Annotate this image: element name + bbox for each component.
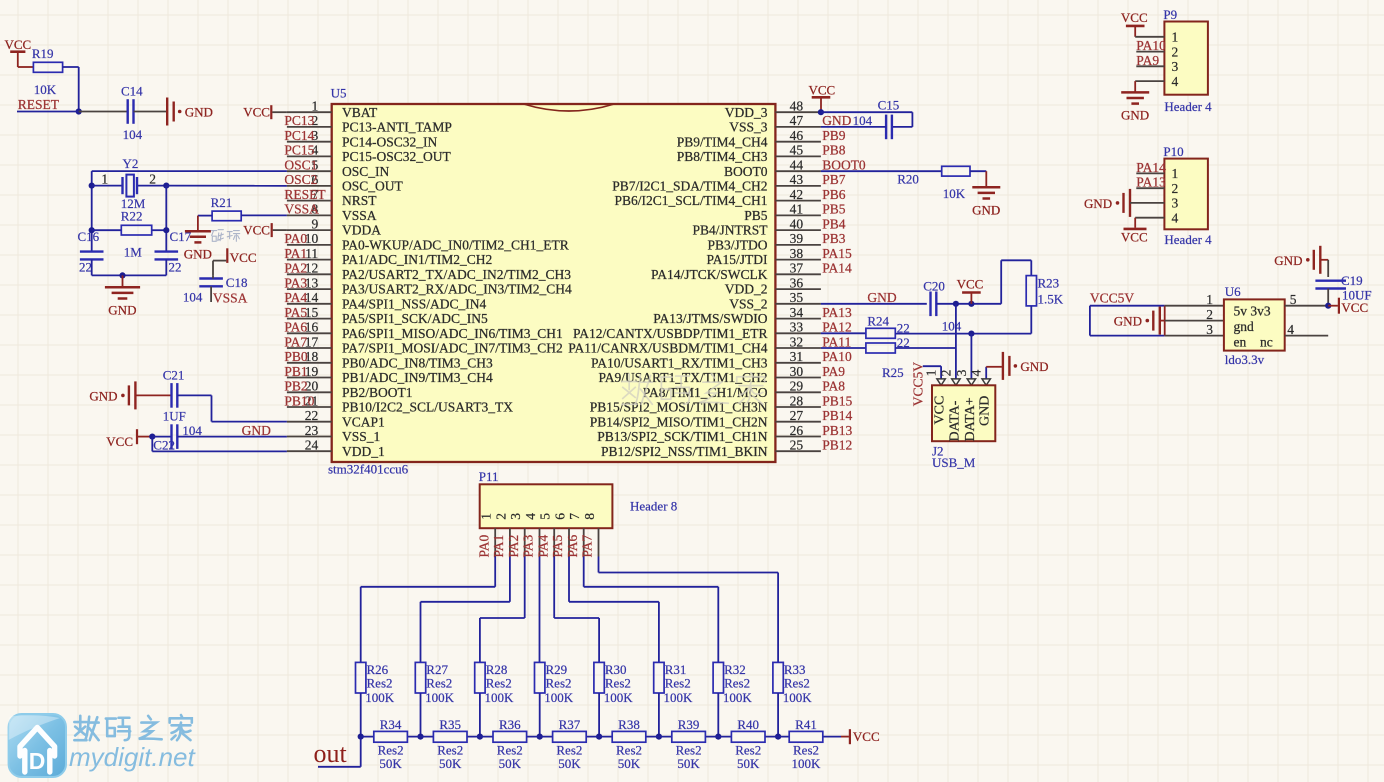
logo text shuma zhijia (74, 716, 86, 740)
svg-text:Res2: Res2 (724, 676, 750, 691)
svg-text:D: D (29, 748, 46, 774)
svg-text:PA1: PA1 (284, 246, 307, 261)
U5 pin 31 PA10/USART1_RX/TIM1_CH3 (775, 362, 821, 364)
U5 pin 23 VSS_1 (287, 436, 332, 438)
wire P10 pin1 PA14 (1136, 172, 1164, 174)
svg-text:PC14: PC14 (284, 128, 314, 143)
svg-text:29: 29 (790, 379, 804, 394)
svg-text:5: 5 (538, 513, 553, 520)
svg-text:R38: R38 (618, 717, 640, 732)
resistor R26 Res2 100K (356, 662, 366, 693)
svg-text:RESET: RESET (18, 97, 60, 112)
U5 pin 44 BOOT0 (775, 170, 821, 172)
node ladder 26 (358, 734, 364, 740)
capacitor C16 (80, 250, 104, 252)
connector P10 (1164, 159, 1208, 230)
svg-text:PA1: PA1 (491, 535, 506, 558)
svg-text:GND: GND (972, 203, 1000, 218)
svg-text:PA7: PA7 (580, 534, 595, 557)
svg-text:PB3: PB3 (822, 231, 846, 246)
svg-text:VCC: VCC (243, 105, 270, 120)
svg-text:26: 26 (790, 423, 804, 438)
svg-text:PB6/I2C1_SCL/TIM4_CH1: PB6/I2C1_SCL/TIM4_CH1 (614, 193, 767, 208)
svg-text:out: out (314, 739, 348, 768)
svg-text:PB0/ADC_IN8/TIM3_CH3: PB0/ADC_IN8/TIM3_CH3 (342, 355, 493, 370)
svg-text:PA9: PA9 (822, 364, 845, 379)
svg-text:32: 32 (790, 334, 804, 349)
svg-text:gnd: gnd (1234, 319, 1255, 334)
wire P9 pin2 PA10 (1136, 51, 1164, 53)
svg-text:PB1/ADC_IN9/TIM3_CH4: PB1/ADC_IN9/TIM3_CH4 (342, 370, 493, 385)
svg-text:PA12/CANTX/USBDP/TIM1_ETR: PA12/CANTX/USBDP/TIM1_ETR (573, 326, 768, 341)
svg-text:VSS_3: VSS_3 (729, 120, 768, 135)
U5 pin 28 PB15/SPI2_MOSI/TIM1_CH3N (775, 406, 821, 408)
U5 pin 15 PA5/SPI1_SCK/ADC_IN5 (287, 318, 332, 320)
svg-text:VCC5V: VCC5V (1090, 290, 1135, 305)
node DATA+ (968, 331, 974, 337)
capacitor C14 (126, 99, 128, 124)
svg-text:VDD_2: VDD_2 (725, 282, 768, 297)
svg-text:50K: 50K (499, 756, 522, 771)
svg-text:100K: 100K (485, 690, 515, 705)
resistor R25 (866, 343, 895, 353)
svg-text:48: 48 (790, 99, 804, 114)
svg-text:27: 27 (790, 408, 804, 423)
svg-text:34: 34 (790, 305, 804, 320)
svg-text:50K: 50K (439, 756, 462, 771)
svg-text:1.5K: 1.5K (1038, 292, 1064, 307)
svg-text:Header 4: Header 4 (1164, 99, 1212, 114)
svg-text:4: 4 (523, 513, 538, 520)
capacitor C21 (170, 383, 172, 408)
svg-text:R29: R29 (546, 662, 568, 677)
power ground GND (C21) (134, 381, 136, 409)
svg-text:DATA-: DATA- (947, 400, 962, 441)
wire R23 bottom (1030, 306, 1032, 334)
svg-text:R22: R22 (121, 209, 143, 224)
svg-text:R25: R25 (882, 365, 904, 380)
wire R28 to ladder (479, 693, 481, 737)
svg-text:PA5/SPI1_SCK/ADC_IN5: PA5/SPI1_SCK/ADC_IN5 (342, 311, 488, 326)
svg-text:37: 37 (790, 261, 804, 276)
wire VCC5V loop (1089, 306, 1091, 336)
U5 pin 39 PB3/JTDO (775, 244, 821, 246)
svg-text:33: 33 (790, 320, 804, 335)
resistor R36 Res2 50K (493, 731, 527, 742)
U5 pin 46 PB9/TIM4_CH4 (775, 141, 821, 143)
wire USB GND pin4 (985, 367, 987, 379)
svg-text:45: 45 (790, 143, 804, 158)
svg-text:VCC: VCC (1341, 300, 1368, 315)
node 3v3 (1325, 303, 1331, 309)
svg-text:PA14/JTCK/SWCLK: PA14/JTCK/SWCLK (651, 267, 768, 282)
svg-text:PB13: PB13 (822, 423, 852, 438)
svg-text:P9: P9 (1163, 7, 1177, 22)
node RESET junction (76, 108, 82, 114)
svg-text:47: 47 (790, 113, 804, 128)
svg-text:100K: 100K (604, 690, 634, 705)
connector J2 USB_M (937, 379, 945, 385)
svg-text:Y2: Y2 (123, 156, 139, 171)
wire P10 pin2 PA13 (1136, 187, 1164, 189)
U5 pin 40 PB4/JNTRST (775, 229, 821, 231)
resistor R27 Res2 100K (415, 662, 425, 693)
node ladder 31 (656, 734, 662, 740)
wire R23 top loop (1000, 260, 1002, 304)
svg-text:VCC: VCC (1121, 10, 1148, 25)
svg-text:7: 7 (567, 513, 582, 520)
U5 pin 14 PA4/SPI1_NSS/ADC_IN4 (287, 303, 332, 305)
wire R19 to node RESET (63, 66, 79, 68)
wire OSC_IN (92, 170, 287, 172)
node DATA- top (953, 301, 959, 307)
svg-text:R41: R41 (795, 717, 817, 732)
node ladder 30 (596, 734, 602, 740)
svg-text:10K: 10K (943, 186, 966, 201)
wire VCC to R19 (17, 52, 19, 67)
svg-text:Header 4: Header 4 (1164, 232, 1212, 247)
svg-text:C21: C21 (163, 368, 185, 383)
wire P9 pin1 (1134, 26, 1136, 37)
svg-text:PC13-ANTI_TAMP: PC13-ANTI_TAMP (342, 120, 452, 135)
svg-text:4: 4 (969, 369, 984, 376)
wire crystal right vertical (165, 186, 167, 253)
svg-text:1: 1 (479, 513, 494, 520)
svg-text:Header 8: Header 8 (630, 499, 677, 514)
svg-text:PA9: PA9 (1136, 53, 1159, 68)
wire VCC to C18 (213, 260, 226, 262)
svg-text:GND: GND (1084, 196, 1112, 211)
svg-text:100K: 100K (792, 756, 822, 771)
capacitor C20 (929, 292, 931, 317)
svg-text:GND: GND (1121, 108, 1149, 123)
svg-text:44: 44 (790, 158, 804, 173)
wire DATA- vertical (955, 304, 957, 379)
svg-text:30: 30 (790, 364, 804, 379)
resistor R23 (1026, 276, 1036, 306)
svg-text:PA13: PA13 (822, 305, 852, 320)
svg-text:mydigit.net: mydigit.net (69, 742, 196, 772)
wire C19 to VCC node (1327, 289, 1329, 306)
svg-text:Res2: Res2 (426, 676, 452, 691)
wire VCC to VDD_1 (151, 437, 153, 452)
svg-text:9: 9 (311, 216, 318, 231)
svg-text:PA5: PA5 (284, 305, 307, 320)
resistor R40 Res2 50K (731, 731, 765, 742)
svg-text:PA3: PA3 (521, 534, 536, 557)
svg-text:VCC: VCC (106, 434, 133, 449)
svg-text:PB4/JNTRST: PB4/JNTRST (692, 223, 768, 238)
svg-text:R19: R19 (32, 46, 54, 61)
power VCC (P9) (1126, 25, 1145, 28)
capacitor C17 (155, 250, 179, 252)
node VDD_3 (818, 109, 824, 115)
power ground GND (U6) (1159, 307, 1161, 335)
svg-text:VSSA: VSSA (342, 208, 377, 223)
svg-text:VDD_3: VDD_3 (725, 105, 768, 120)
svg-text:R21: R21 (211, 195, 233, 210)
svg-text:PA4: PA4 (284, 290, 307, 305)
svg-text:GND: GND (1114, 314, 1142, 329)
svg-text:2: 2 (938, 370, 953, 377)
svg-text:R23: R23 (1038, 276, 1060, 291)
resistor R20 (942, 166, 970, 176)
U5 pin 32 PA11/CANRX/USBDM/TIM1_CH4 (775, 347, 821, 349)
U5 pin 19 PB1/ADC_IN9/TIM3_CH4 (287, 377, 332, 379)
svg-text:104: 104 (942, 319, 962, 334)
capacitor C19 (1315, 280, 1346, 282)
svg-text:VCC: VCC (243, 223, 270, 238)
svg-text:R30: R30 (605, 662, 627, 677)
svg-text:100K: 100K (723, 690, 753, 705)
svg-text:104: 104 (853, 113, 873, 128)
svg-text:1UF: 1UF (163, 409, 186, 424)
svg-text:VCC: VCC (230, 250, 257, 265)
wire P9 pin4 (1135, 80, 1164, 82)
svg-text:PA14: PA14 (822, 261, 852, 276)
node ground rail (119, 272, 125, 278)
svg-text:Res2: Res2 (486, 676, 512, 691)
resistor R31 Res2 100K (654, 662, 664, 693)
resistor R30 Res2 100K (594, 662, 604, 693)
svg-text:3: 3 (508, 513, 523, 520)
svg-text:1: 1 (1172, 166, 1179, 181)
net wire GND (VSS_2) (821, 303, 927, 305)
svg-text:4: 4 (1172, 210, 1179, 225)
svg-text:P11: P11 (479, 469, 499, 484)
svg-text:PB2: PB2 (284, 379, 307, 394)
svg-text:PA14: PA14 (1136, 160, 1166, 175)
svg-text:22: 22 (79, 260, 92, 275)
svg-text:PB4: PB4 (822, 216, 846, 231)
U5 pin 1 VBAT (287, 111, 332, 113)
svg-text:PB8/TIM4_CH3: PB8/TIM4_CH3 (677, 149, 768, 164)
U5 pin 41 PB5 (775, 214, 821, 216)
resistor R32 Res2 100K (713, 662, 723, 693)
U5 pin 13 PA3/USART2_RX/ADC_IN3/TIM2_CH4 (287, 288, 332, 290)
U5 pin 10 PA0-WKUP/ADC_IN0/TIM2_CH1_ETR (287, 244, 332, 246)
svg-text:10K: 10K (34, 82, 57, 97)
node ladder 28 (477, 734, 483, 740)
svg-text:23: 23 (305, 423, 319, 438)
svg-text:VCC: VCC (957, 276, 984, 291)
svg-text:24: 24 (305, 438, 319, 453)
wire junction to C14 (79, 111, 128, 113)
power VCC (3v3) (1328, 305, 1338, 307)
wire P10 pin4 (1135, 217, 1164, 219)
svg-text:50K: 50K (618, 756, 641, 771)
wire R24 to DATA+ rail (895, 333, 1031, 335)
op-amp U5 body (stm32f401ccu6) (332, 104, 776, 462)
node R22 right (163, 227, 169, 233)
node C22 (149, 434, 155, 440)
svg-text:USB_M: USB_M (932, 455, 976, 470)
svg-text:R33: R33 (784, 662, 806, 677)
svg-text:U6: U6 (1225, 284, 1241, 299)
svg-text:PC13: PC13 (284, 113, 314, 128)
svg-text:PB0: PB0 (284, 349, 308, 364)
svg-text:R35: R35 (439, 717, 461, 732)
power VCC (VDD_3) (812, 96, 831, 99)
U5 pin 6 OSC_OUT (287, 185, 332, 187)
wire P10 pin3 (1130, 202, 1164, 204)
U5 pin 26 PB13/SPI2_SCK/TIM1_CH1N (775, 436, 821, 438)
svg-text:42: 42 (790, 187, 804, 202)
wire GND to C19 (1320, 259, 1328, 261)
svg-text:OSC_IN: OSC_IN (342, 164, 390, 179)
svg-text:31: 31 (790, 349, 804, 364)
svg-text:50K: 50K (558, 756, 581, 771)
svg-text:VDDA: VDDA (342, 223, 381, 238)
node ladder 33 (775, 734, 781, 740)
svg-text:C14: C14 (121, 84, 143, 99)
svg-text:PA4: PA4 (535, 534, 550, 557)
power VCC (VDDA) (271, 223, 273, 237)
U5 pin 4 PC15-OSC32_OUT (287, 155, 332, 157)
node R22 left (89, 227, 95, 233)
svg-text:1: 1 (311, 99, 318, 114)
svg-text:1M: 1M (124, 245, 143, 260)
wire to GND (122, 275, 124, 287)
svg-text:2: 2 (493, 513, 508, 520)
svg-text:C20: C20 (923, 279, 945, 294)
wire R21 left to GND (198, 215, 212, 217)
svg-text:PB14/SPI2_MISO/TIM1_CH2N: PB14/SPI2_MISO/TIM1_CH2N (590, 414, 768, 429)
wire VCC5V rail (1090, 305, 1165, 307)
svg-text:43: 43 (790, 172, 804, 187)
svg-text:PB15: PB15 (822, 393, 852, 408)
resistor R21 (212, 211, 241, 221)
svg-text:PB2/BOOT1: PB2/BOOT1 (342, 385, 413, 400)
wire BOOT0 to R20 (821, 170, 942, 172)
svg-text:GND: GND (1020, 359, 1048, 374)
resistor R37 Res2 50K (553, 731, 587, 742)
node crystal pin1 (89, 183, 95, 189)
svg-text:R37: R37 (559, 717, 581, 732)
svg-text:PB10: PB10 (284, 393, 314, 408)
svg-text:PB5: PB5 (822, 202, 846, 217)
power ground GND (C14) (166, 98, 168, 126)
resistor R28 Res2 100K (475, 662, 485, 693)
svg-text:PA15/JTDI: PA15/JTDI (706, 252, 768, 267)
resistor R35 Res2 50K (433, 731, 467, 742)
svg-text:R31: R31 (665, 662, 687, 677)
resistor R39 Res2 50K (672, 731, 706, 742)
U5 pin 38 PA15/JTDI (775, 259, 821, 261)
watermark on chip (622, 374, 637, 405)
svg-text:R32: R32 (724, 662, 746, 677)
svg-text:1: 1 (1206, 292, 1213, 307)
svg-text:PC14-OSC32_IN: PC14-OSC32_IN (342, 134, 438, 149)
svg-text:VCC5V: VCC5V (910, 362, 925, 407)
svg-text:OSC2: OSC2 (284, 172, 317, 187)
svg-text:3: 3 (1206, 322, 1213, 337)
U5 pin 37 PA14/JTCK/SWCLK (775, 273, 821, 275)
svg-text:100K: 100K (664, 690, 694, 705)
power VCC (USB pullup) (962, 291, 981, 294)
svg-text:PB6: PB6 (822, 187, 846, 202)
svg-text:VCC: VCC (933, 396, 948, 425)
svg-text:PB10/I2C2_SCL/USART3_TX: PB10/I2C2_SCL/USART3_TX (342, 400, 513, 415)
svg-text:PB12: PB12 (822, 438, 852, 453)
U5 pin 22 VCAP1 (287, 421, 332, 423)
power ground GND (C19) (1319, 246, 1321, 274)
svg-text:PB5: PB5 (744, 208, 768, 223)
svg-text:104: 104 (123, 127, 143, 142)
svg-text:50K: 50K (677, 756, 700, 771)
svg-text:Res2: Res2 (665, 676, 691, 691)
svg-text:39: 39 (790, 231, 804, 246)
svg-text:VSSA: VSSA (213, 291, 248, 306)
svg-text:PB13/SPI2_SCK/TIM1_CH1N: PB13/SPI2_SCK/TIM1_CH1N (597, 429, 768, 444)
svg-text:C18: C18 (226, 275, 248, 290)
svg-text:PA8: PA8 (822, 379, 845, 394)
U5 pin 25 PB12/SPI2_NSS/TIM1_BKIN (775, 450, 821, 452)
svg-text:VCC: VCC (853, 729, 880, 744)
connector P11 Header 8 (480, 484, 613, 528)
svg-text:R28: R28 (486, 662, 508, 677)
resistor R24 (866, 328, 895, 338)
ground GND (crystal) (105, 286, 140, 289)
U5 pin 18 PB0/ADC_IN8/TIM3_CH3 (287, 362, 332, 364)
wire C21 to VCAP1 (177, 394, 211, 396)
svg-text:PA4/SPI1_NSS/ADC_IN4: PA4/SPI1_NSS/ADC_IN4 (342, 296, 487, 311)
svg-text:6: 6 (553, 513, 568, 520)
wire OSC_OUT (166, 185, 287, 187)
svg-text:en: en (1234, 334, 1247, 349)
svg-text:VCC: VCC (1121, 230, 1148, 245)
U5 pin 36 VDD_2 (775, 288, 821, 290)
svg-text:VSS_1: VSS_1 (342, 429, 380, 444)
comment cihuan (magnetic bead) (211, 231, 217, 242)
svg-text:GND: GND (242, 423, 271, 438)
svg-text:PB12/SPI2_NSS/TIM1_BKIN: PB12/SPI2_NSS/TIM1_BKIN (601, 444, 768, 459)
svg-text:100K: 100K (365, 690, 395, 705)
svg-text:PA11/CANRX/USBDM/TIM1_CH4: PA11/CANRX/USBDM/TIM1_CH4 (568, 341, 768, 356)
resistor R29 Res2 100K (535, 662, 545, 693)
svg-text:R26: R26 (367, 662, 389, 677)
svg-text:PA2/USART2_TX/ADC_IN2/TIM2_CH3: PA2/USART2_TX/ADC_IN2/TIM2_CH3 (342, 267, 571, 282)
svg-text:NRST: NRST (342, 193, 377, 208)
svg-text:100K: 100K (425, 690, 455, 705)
svg-text:PB3/JTDO: PB3/JTDO (707, 238, 767, 253)
svg-text:nc: nc (1260, 334, 1273, 349)
svg-text:PC15-OSC32_OUT: PC15-OSC32_OUT (342, 149, 452, 164)
svg-text:PA1/ADC_IN1/TIM2_CH2: PA1/ADC_IN1/TIM2_CH2 (342, 252, 492, 267)
resistor R22 (92, 229, 122, 231)
svg-text:Res2: Res2 (605, 676, 631, 691)
svg-text:OSC_OUT: OSC_OUT (342, 179, 404, 194)
U5 pin 9 VDDA (287, 229, 332, 231)
resistor R33 Res2 100K (773, 662, 783, 693)
svg-text:Res2: Res2 (784, 676, 810, 691)
connector P9 (1164, 22, 1208, 95)
svg-text:PB9/TIM4_CH4: PB9/TIM4_CH4 (677, 134, 768, 149)
voltage regulator U6 ldo3.3v (1165, 305, 1224, 307)
svg-text:PA5: PA5 (550, 534, 565, 557)
wire C17 bottom (165, 260, 167, 276)
svg-text:36: 36 (790, 275, 804, 290)
wire ladder to VCC (841, 736, 849, 738)
svg-text:VCC: VCC (809, 83, 836, 98)
svg-text:PA0: PA0 (476, 534, 491, 557)
svg-text:OSC1: OSC1 (284, 158, 317, 173)
svg-text:2: 2 (1206, 307, 1213, 322)
svg-text:3: 3 (1172, 196, 1179, 211)
U5 pin 7 NRST (287, 200, 332, 202)
wire R26 to ladder (360, 693, 362, 737)
wire VCC to VDDA (273, 229, 287, 231)
